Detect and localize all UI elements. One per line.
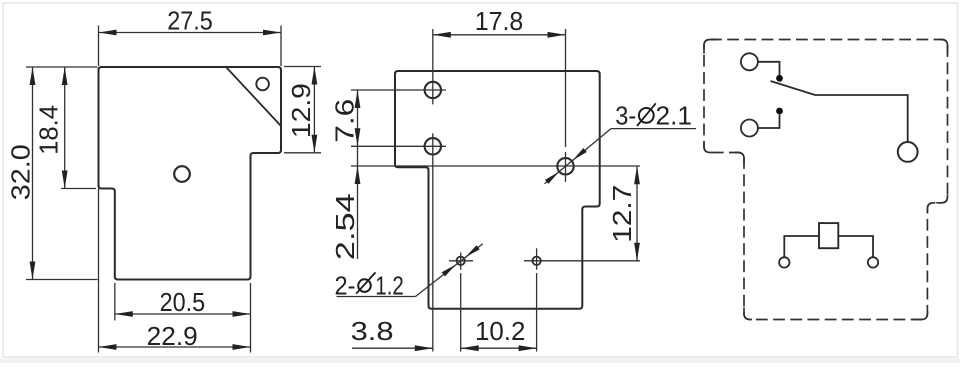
dim 7.6 line xyxy=(357,90,359,146)
hole 2 horizontal centerline / 7.6 ext xyxy=(351,145,446,147)
dim 18.4 extension line xyxy=(61,188,96,190)
svg-text:12.9: 12.9 xyxy=(286,83,316,138)
leader line to hole 4 xyxy=(416,244,483,297)
chamfer cut line xyxy=(226,67,281,126)
arrows 27.5 xyxy=(99,30,117,36)
hole 4 vertical centerline below hole xyxy=(460,253,462,270)
centerline through hole 2 down to bottom dim xyxy=(432,133,434,351)
svg-text:27.5: 27.5 xyxy=(167,6,213,36)
leader arrow at hole 4 lower left xyxy=(442,265,456,277)
leader line to hole 3 xyxy=(545,129,612,184)
dashed case outline xyxy=(704,40,948,320)
horizontal centerline hole 3 / 2.54 ext / 12.7 ext xyxy=(351,165,640,167)
arrow 3.8 (outside, pointing right) xyxy=(415,345,433,351)
dim 12.9 line xyxy=(313,67,315,153)
contact dot NO xyxy=(776,108,783,115)
dim 32.0 extension lines xyxy=(26,66,98,68)
wire from NC terminal to contact point xyxy=(758,62,780,75)
svg-text:12.7: 12.7 xyxy=(607,185,637,243)
leader underline 2-phi1.2 xyxy=(337,296,416,298)
centerline above hole 3 xyxy=(565,29,567,147)
svg-text:7.6: 7.6 xyxy=(330,99,360,143)
centerline through hole 1 xyxy=(432,29,434,104)
centerline through hole 3 xyxy=(565,152,567,182)
hole 5 vertical extension to bottom dim xyxy=(536,273,538,351)
phi symbol of 2-phi1.2 xyxy=(358,279,371,292)
arrows 20.5 xyxy=(115,311,133,317)
terminal COM (big right circle) xyxy=(898,142,918,162)
leader arrow at hole 4 upper right xyxy=(465,245,479,257)
dim 3.8 line xyxy=(352,347,433,349)
coil left wire xyxy=(784,236,819,257)
svg-text:2-: 2- xyxy=(335,271,356,301)
hole 1 horizontal centerline / 7.6 ext xyxy=(351,89,446,91)
hole 4 vertical extension to bottom dim xyxy=(460,273,462,351)
svg-text:1.2: 1.2 xyxy=(375,271,404,301)
dim 12.9 extension lines xyxy=(284,66,321,68)
hole 4 horizontal centerline xyxy=(449,260,473,262)
dim 10.2 line xyxy=(461,347,537,349)
svg-text:2.54: 2.54 xyxy=(330,193,360,260)
svg-text:32.0: 32.0 xyxy=(6,144,36,200)
terminal NC (top-left circle) xyxy=(741,53,758,70)
arrows 17.8 xyxy=(433,32,451,38)
svg-text:22.9: 22.9 xyxy=(147,321,198,351)
arrows 7.6 xyxy=(355,90,361,108)
arrows 22.9 xyxy=(99,344,117,350)
svg-text:20.5: 20.5 xyxy=(160,287,206,317)
arrows 12.9 xyxy=(312,67,318,85)
leader arrow at hole 3 upper right xyxy=(573,148,587,160)
dim 20.5 line xyxy=(115,313,251,315)
center hole xyxy=(174,166,190,182)
dashed outline solid corner pieces xyxy=(704,40,718,54)
dim 32.0 line xyxy=(32,67,34,280)
svg-text:10.2: 10.2 xyxy=(475,316,526,346)
coil terminal right xyxy=(868,257,878,267)
dim 2.54 line xyxy=(357,146,359,259)
arrows 10.2 xyxy=(461,345,479,351)
dim 17.8 line xyxy=(433,34,566,36)
dim 27.5 extension lines xyxy=(98,26,100,67)
dim 22.9 line xyxy=(99,346,251,348)
coil right wire xyxy=(838,236,873,257)
contact dot NC xyxy=(776,75,783,82)
svg-text:3.8: 3.8 xyxy=(351,316,394,346)
svg-text:2.1: 2.1 xyxy=(656,101,693,131)
hole 5 vertical centerline through hole xyxy=(536,248,538,269)
svg-text:18.4: 18.4 xyxy=(34,105,64,155)
switch blade and wire to common terminal xyxy=(771,81,908,142)
phi symbol of 3-phi2.1 xyxy=(639,108,654,123)
dim 12.7 line xyxy=(636,166,638,260)
wire from NO terminal to contact point xyxy=(758,115,780,129)
terminal NO (lower-left circle) xyxy=(741,120,758,137)
svg-text:17.8: 17.8 xyxy=(475,6,524,36)
hole 3 (2.1mm hole) xyxy=(557,158,573,174)
coil terminal left xyxy=(779,257,789,267)
dim 20.5 extension lines xyxy=(114,283,116,321)
hole 4 (1.2mm hole) xyxy=(457,257,465,265)
arrow 2.54 (outside, pointing up) xyxy=(355,166,361,184)
arrows 32.0 xyxy=(30,67,36,85)
dim 22.9 extension line xyxy=(98,189,100,353)
left view relay body outline xyxy=(99,67,282,280)
dim 27.5 line xyxy=(99,32,282,34)
hole 5 (1.2mm hole) xyxy=(532,257,540,265)
hole 2 (second mounting hole) xyxy=(425,138,441,154)
svg-text:3-: 3- xyxy=(615,101,636,131)
leader arrow at hole 3 lower left xyxy=(545,172,559,184)
arrows 12.7 xyxy=(634,166,640,184)
middle view body outline xyxy=(395,71,600,309)
hole 5 horizontal centerline / 12.7 ext xyxy=(524,260,640,262)
chamfer hole xyxy=(256,78,269,91)
leader underline 3-phi2.1 xyxy=(611,128,696,130)
hole 1 (top mounting hole) xyxy=(425,82,441,98)
arrows 18.4 xyxy=(62,67,68,85)
dim 18.4 line xyxy=(64,67,66,189)
coil rectangle xyxy=(819,223,838,248)
